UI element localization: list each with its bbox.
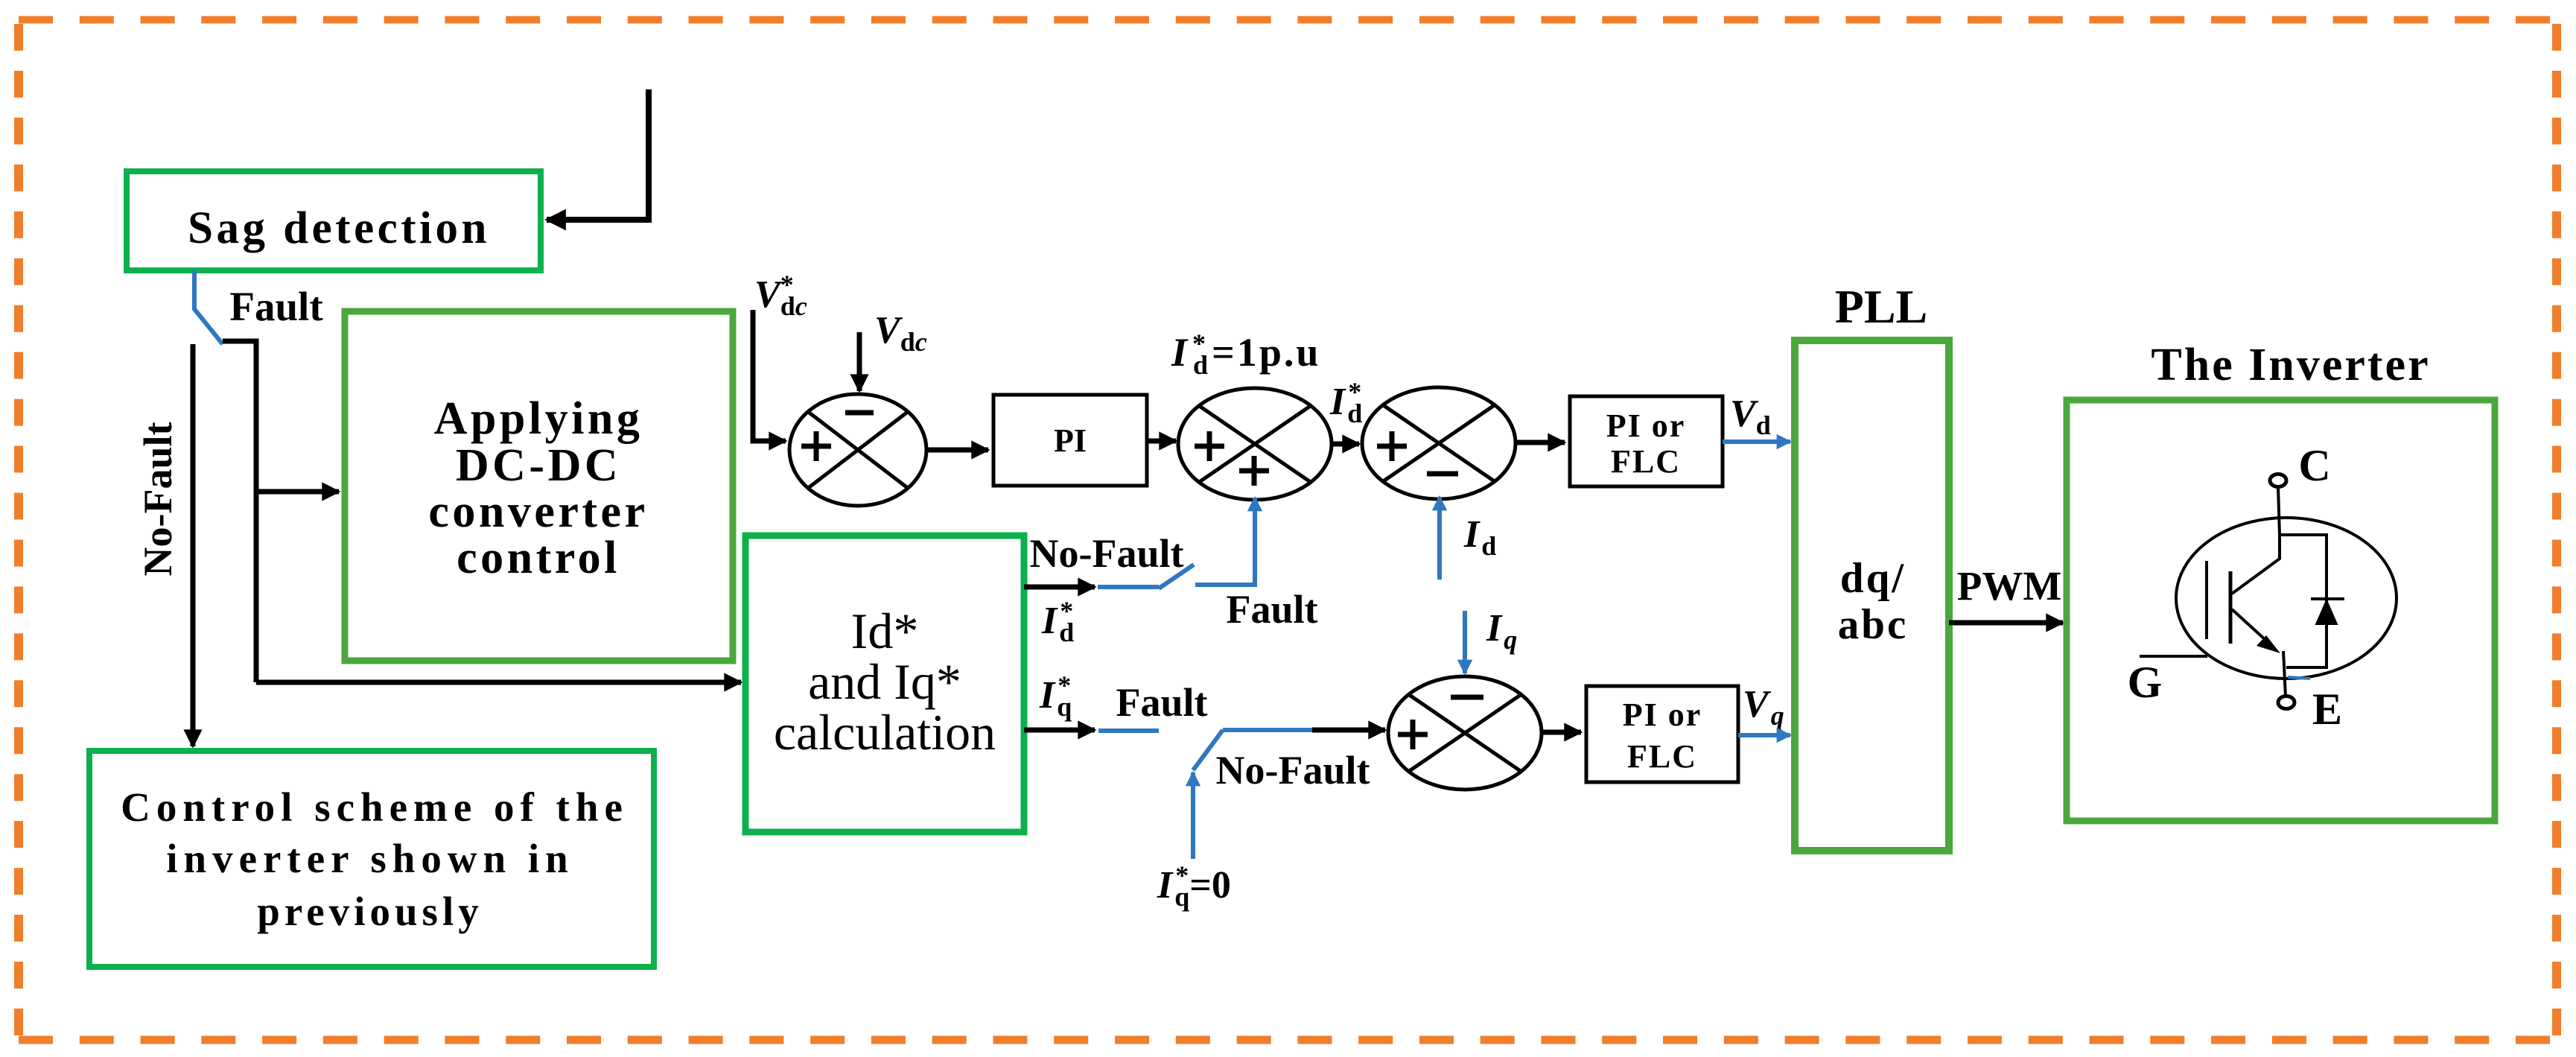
wire: Iq blue arrow into S4: [1463, 611, 1467, 673]
svg-text:The Inverter: The Inverter: [2151, 340, 2430, 390]
block: PI or FLC upper: [1570, 396, 1723, 486]
svg-text:PLL: PLL: [1835, 280, 1927, 333]
wire: Vq blue arrow into dq/abc: [1738, 733, 1790, 737]
svg-text:Control scheme of the: Control scheme of the: [121, 784, 629, 830]
wire: arrow into DC-DC box: [256, 489, 339, 495]
svg-text:No-Fault: No-Fault: [1216, 748, 1370, 793]
svg-text:control: control: [457, 533, 620, 583]
node: No-Fault label upper: [1030, 531, 1184, 576]
wire: S2 to S3: [1332, 442, 1359, 447]
wire: blue stub after Iq* arrow: [1098, 729, 1159, 733]
node: Iq* output label: [1039, 670, 1072, 722]
svg-text:No-Fault: No-Fault: [136, 422, 180, 576]
summing junction S3: [1362, 387, 1516, 499]
node: C terminal: [2270, 441, 2331, 490]
svg-text:E: E: [2312, 685, 2342, 734]
summing junction S1: [789, 394, 926, 506]
wire: calc box Id* output arrow: [1024, 585, 1095, 590]
svg-text:DC-DC: DC-DC: [456, 440, 621, 491]
wire: collector lead: [2232, 487, 2280, 594]
wire: blue horizontal to S4: [1223, 728, 1312, 732]
wire: No-Fault vertical arrow: [191, 344, 196, 746]
svg-text:PWM: PWM: [1957, 563, 2062, 609]
svg-text:G: G: [2128, 658, 2163, 707]
node: Iq label: [1486, 607, 1517, 655]
wire: emitter lead: [2283, 651, 2286, 696]
svg-text:C: C: [2298, 441, 2330, 490]
node: Fault label upper: [1226, 587, 1317, 632]
wire: Vdc down into summing junction 1: [857, 332, 862, 391]
block: PI: [993, 395, 1147, 486]
diode D1: [2311, 599, 2344, 624]
svg-text:Fault: Fault: [1226, 587, 1317, 632]
svg-text:dq/: dq/: [1840, 555, 1906, 602]
block: Control scheme of the inverter: [89, 751, 654, 967]
wire: S1 to PI: [926, 448, 988, 453]
node: Vd label: [1730, 393, 1771, 440]
wire: PI to S2: [1147, 439, 1176, 444]
block: Sag detection: [127, 171, 541, 270]
wire: Vdc* into summing junction 1: [753, 310, 786, 441]
node: No-Fault label lower: [1216, 748, 1370, 793]
svg-text:No-Fault: No-Fault: [1030, 531, 1184, 576]
svg-text:PI or: PI or: [1606, 407, 1686, 444]
wire: PWM arrow: [1949, 620, 2063, 626]
svg-text:converter: converter: [428, 486, 648, 537]
wire: Iq*=0 blue arrow: [1191, 772, 1195, 859]
wire: switch blade lower: [1193, 730, 1223, 770]
wire: black into S4: [1312, 728, 1385, 733]
node: G label: [2128, 658, 2163, 707]
block: dq/abc PLL: [1795, 340, 1949, 851]
wire: blue stub after Id* arrow: [1098, 585, 1159, 589]
svg-text:PI: PI: [1054, 422, 1087, 459]
svg-text:FLC: FLC: [1627, 738, 1697, 775]
node: Fault label lower: [1116, 680, 1207, 725]
svg-text:FLC: FLC: [1611, 443, 1681, 480]
wire: input into Sag detection: [547, 89, 649, 220]
block: Applying DC-DC converter control: [345, 311, 733, 661]
transistor body bar: [2229, 571, 2233, 644]
node: Vq label: [1743, 683, 1784, 731]
svg-text:PI or: PI or: [1623, 696, 1702, 733]
node: No-Fault rotated label: [136, 422, 180, 576]
node: Fault label: [229, 284, 323, 329]
svg-text:previously: previously: [257, 889, 483, 934]
orange dashed frame: [19, 16, 2550, 24]
svg-text:Fault: Fault: [229, 284, 323, 329]
svg-text:I*d=1p.u: I*d=1p.u: [1171, 328, 1320, 380]
transistor IGBT body ellipse: [2176, 518, 2397, 679]
node: Id* label between junctions: [1329, 377, 1362, 428]
wire: calc box Iq* output arrow: [1024, 728, 1095, 733]
node: Id* output label: [1041, 596, 1074, 647]
wire: blue elbow into S2: [1195, 498, 1255, 585]
wire: small blue mark at IGBT bottom: [2288, 677, 2310, 679]
node: Id label: [1463, 513, 1496, 561]
wire: fault branch vertical: [223, 341, 256, 682]
svg-text:Id*: Id*: [851, 603, 919, 659]
svg-text:inverter shown in: inverter shown in: [166, 836, 574, 881]
svg-text:Fault: Fault: [1116, 680, 1207, 725]
svg-text:Sag detection: Sag detection: [188, 203, 490, 253]
block: The Inverter: [2067, 400, 2495, 821]
node: Vdc* label: [754, 270, 807, 321]
svg-text:abc: abc: [1838, 601, 1909, 648]
wire: S4 to PI or FLC 2: [1542, 730, 1581, 735]
wire: Vd blue arrow into dq/abc: [1723, 439, 1790, 444]
svg-text:calculation: calculation: [774, 704, 996, 761]
wire: gate lead: [2140, 655, 2207, 658]
wire: Id blue arrow into S3: [1437, 497, 1442, 580]
svg-text:I*q=0: I*q=0: [1157, 860, 1231, 912]
node: E terminal: [2278, 685, 2342, 734]
wire: switch blade No-Fault: [1159, 565, 1194, 588]
wire: arrow into Id Iq calculation box: [256, 680, 741, 685]
node: PLL label: [1835, 280, 1927, 333]
svg-text:and Iq*: and Iq*: [808, 653, 961, 710]
wire: emitter with arrow: [2232, 609, 2280, 653]
wire: diode branch top: [2280, 535, 2327, 667]
node: PWM label: [1957, 563, 2062, 609]
summing junction S4: [1388, 676, 1542, 790]
node: Iq*=0 label: [1157, 860, 1231, 912]
wire: S3 to PI or FLC 1: [1516, 440, 1565, 445]
node: Id*=1p.u label: [1171, 328, 1320, 380]
block: PI or FLC lower: [1586, 686, 1738, 782]
wire: blue switch from Sag detection (Fault blade): [194, 270, 223, 344]
block: Id* and Iq* calculation: [745, 536, 1024, 832]
svg-text:Applying: Applying: [434, 393, 643, 444]
node: The Inverter title: [2151, 340, 2430, 390]
transistor gate bar: [2205, 561, 2208, 639]
summing junction S2: [1178, 388, 1332, 500]
node: Vdc label: [874, 309, 927, 357]
